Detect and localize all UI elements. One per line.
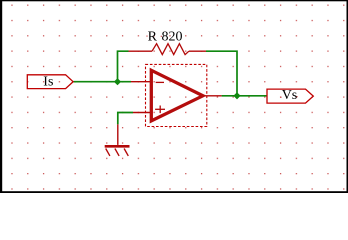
svg-text:Is: Is bbox=[43, 75, 53, 90]
svg-text:R: R bbox=[148, 30, 158, 45]
svg-text:820: 820 bbox=[162, 30, 183, 45]
svg-text:Vs: Vs bbox=[282, 88, 298, 103]
